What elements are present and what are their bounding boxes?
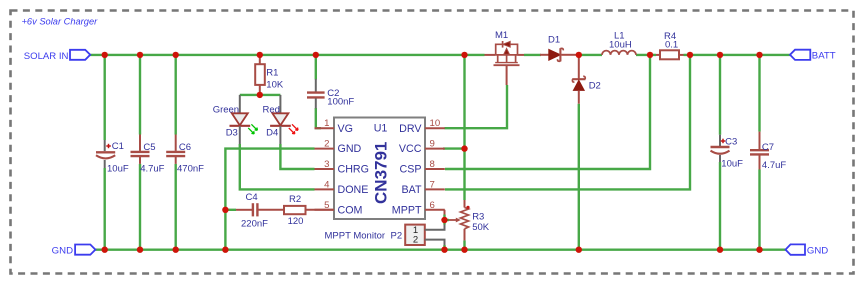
LED D3 green: [230, 95, 251, 144]
wire D1 cathode to L1: [576, 54, 602, 56]
junction dot R4/BAT node: [687, 52, 693, 58]
label C2 value: [327, 88, 354, 108]
svg-text:10uF: 10uF: [107, 163, 129, 174]
wire DRV pin10 to M1 gate: [445, 85, 508, 128]
junction dot rail/C5: [137, 52, 143, 58]
svg-text:BATT: BATT: [812, 51, 836, 62]
IC U1 right pin names: [392, 123, 423, 217]
svg-text:4.7uF: 4.7uF: [140, 163, 164, 174]
label L1 value: [609, 31, 632, 51]
junction dot gnd/P2 pin2: [441, 247, 447, 253]
svg-text:5: 5: [324, 200, 329, 211]
label M1: [495, 30, 508, 41]
svg-text:4.7uF: 4.7uF: [762, 160, 786, 171]
svg-text:C6: C6: [179, 142, 191, 153]
diode D2 schottky: [572, 56, 585, 104]
svg-text:M1: M1: [495, 30, 508, 41]
junction dot gnd/IC GND branch: [222, 247, 228, 253]
junction dot VCC: [461, 145, 467, 151]
LED D4 emission arrows (red): [289, 124, 298, 134]
svg-text:VG: VG: [338, 123, 353, 135]
wire C6 branch vertical: [174, 55, 176, 250]
svg-text:2: 2: [324, 139, 329, 150]
junction dot gnd/C7: [756, 247, 762, 253]
svg-text:C3: C3: [725, 137, 737, 148]
svg-text:0.1: 0.1: [665, 40, 678, 51]
svg-text:D1: D1: [548, 34, 560, 45]
capacitor C6: [166, 135, 185, 164]
junction dot R1/LEDs: [257, 92, 263, 98]
svg-text:Green: Green: [213, 104, 239, 115]
svg-text:VCC: VCC: [399, 143, 422, 155]
svg-text:CHRG: CHRG: [338, 164, 369, 176]
svg-text:D3: D3: [226, 128, 238, 139]
junction dot rail/C3: [717, 52, 723, 58]
svg-text:DRV: DRV: [399, 123, 422, 135]
label R1 value: [266, 68, 284, 91]
IC U1 CN3791 body: [334, 118, 425, 220]
wire SOLAR_IN top rail: [90, 54, 485, 56]
IC U1 MPPT pin bend to junction: [444, 210, 446, 215]
svg-text:MPPT: MPPT: [392, 204, 422, 216]
wire COM junction to C4: [225, 209, 236, 211]
wire LED top connector: [240, 94, 281, 96]
wire C5 branch vertical: [139, 55, 141, 250]
junction dot rail/C7: [756, 52, 762, 58]
svg-text:D2: D2: [589, 81, 601, 92]
inductor L1: [602, 51, 636, 55]
junction dot gnd/C6: [173, 247, 179, 253]
port GND left: [52, 245, 96, 257]
IC U1 left pin names: [338, 123, 369, 217]
svg-text:470nF: 470nF: [177, 163, 204, 174]
svg-text:CN3791: CN3791: [371, 142, 390, 204]
pin numbers left 1-5: [324, 118, 330, 211]
svg-text:C4: C4: [246, 192, 258, 203]
svg-text:10K: 10K: [266, 80, 284, 91]
wire M1 drain to D1: [524, 54, 541, 56]
svg-text:10: 10: [430, 118, 441, 129]
svg-text:P2: P2: [391, 230, 403, 241]
capacitor C4: [236, 203, 284, 216]
capacitor C2: [307, 79, 325, 108]
label C5 value: [140, 142, 164, 175]
svg-text:C7: C7: [762, 142, 774, 153]
label C6 value: [177, 142, 204, 175]
svg-text:10uH: 10uH: [609, 39, 632, 50]
svg-text:9: 9: [430, 139, 435, 150]
label C3 value: [721, 137, 743, 170]
svg-text:R1: R1: [266, 68, 278, 79]
wire CSP sense vertical x650 and horizontal to pin8: [445, 55, 650, 169]
wire GND bottom rail: [95, 248, 785, 250]
svg-text:10uF: 10uF: [721, 158, 743, 169]
wire BAT vertical x690 and horizontal to pin7: [445, 55, 690, 190]
svg-text:SOLAR IN: SOLAR IN: [24, 51, 69, 62]
junction dot COM/C4: [222, 207, 228, 213]
wire L1 to R4: [636, 54, 656, 56]
wire C3 branch vertical: [719, 55, 721, 250]
svg-text:+6v Solar Charger: +6v Solar Charger: [22, 17, 99, 27]
junction dot MPPT/P2: [441, 217, 447, 223]
wire C2 branch vertical and to pin1 VG: [316, 55, 321, 128]
junction dot rail/VCC branch: [461, 52, 467, 58]
LED D4 red: [270, 95, 291, 144]
mosfet M1: [485, 41, 525, 85]
resistor R2: [284, 206, 334, 214]
svg-text:120: 120: [288, 216, 304, 227]
capacitor C7: [750, 132, 769, 170]
label R3 value: [472, 212, 490, 234]
svg-text:7: 7: [430, 179, 435, 190]
junction dot gnd/R3: [461, 247, 467, 253]
port BATT: [790, 50, 836, 62]
resistor R1: [255, 55, 265, 95]
LED D3 emission arrows (green): [248, 124, 257, 134]
label D1: [548, 34, 560, 45]
junction dot gnd/D2: [576, 247, 582, 253]
junction dot L1/R4/CSP node: [647, 52, 653, 58]
wire CHRG pin3 to LED D4: [280, 144, 314, 169]
connector P2: [405, 225, 425, 246]
label C4 value: [241, 192, 268, 230]
wire MPPT junction to wiper: [445, 219, 450, 221]
diode D1 schottky: [540, 48, 576, 61]
svg-text:CSP: CSP: [400, 164, 422, 176]
pin numbers right 10-6: [430, 118, 441, 211]
svg-text:GND: GND: [338, 143, 362, 155]
wire C1 branch vertical: [103, 55, 105, 250]
label D4 and Red: [263, 104, 280, 138]
junction dot rail/C2: [313, 52, 319, 58]
IC U1 right pin stubs: [425, 128, 445, 210]
svg-text:C5: C5: [143, 142, 155, 153]
svg-text:GND: GND: [52, 246, 73, 257]
svg-text:U1: U1: [374, 123, 388, 135]
svg-text:R3: R3: [472, 212, 484, 223]
svg-text:GND: GND: [807, 246, 828, 257]
label MPPT Monitor P2: [325, 230, 403, 241]
wire D2 anode to ground: [578, 104, 580, 250]
connector P2 pin 2 stub: [425, 240, 445, 245]
svg-text:8: 8: [430, 159, 435, 170]
label D3 and Green: [213, 104, 239, 138]
svg-text:3: 3: [324, 159, 329, 170]
junction dot rail/R1: [257, 52, 263, 58]
resistor R4: [656, 50, 684, 59]
svg-text:6: 6: [430, 200, 435, 211]
svg-text:DONE: DONE: [338, 184, 369, 196]
capacitor C5: [131, 135, 150, 164]
IC U1 left pin stubs: [315, 128, 335, 210]
wire MPPT junction verticals: [443, 215, 445, 250]
port GND right: [786, 244, 829, 256]
svg-text:1: 1: [324, 118, 329, 129]
svg-text:220nF: 220nF: [241, 219, 268, 230]
label D2: [589, 81, 601, 92]
capacitor C1 polarized: [96, 140, 115, 168]
capacitor C3 polarized: [711, 135, 730, 162]
svg-text:2: 2: [413, 235, 418, 246]
label C1 value: [107, 141, 129, 174]
svg-text:100nF: 100nF: [327, 97, 354, 108]
port SOLAR IN: [24, 50, 90, 62]
svg-text:50K: 50K: [472, 222, 490, 233]
svg-text:BAT: BAT: [402, 184, 422, 196]
label R2 value: [288, 194, 304, 227]
label C7 value: [762, 142, 786, 171]
svg-text:D4: D4: [266, 128, 278, 139]
wire C7 branch vertical: [758, 55, 760, 250]
junction dot gnd/C5: [137, 247, 143, 253]
svg-text:C1: C1: [112, 141, 124, 152]
wire DONE pin4 to LED D3: [240, 144, 315, 189]
wire GND pin2 to ground: [225, 149, 314, 250]
svg-text:4: 4: [324, 179, 330, 190]
svg-text:Red: Red: [263, 104, 280, 115]
junction dot gnd/C3: [717, 247, 723, 253]
junction dot rail/C6: [173, 52, 179, 58]
wire R4 to BATT port: [684, 54, 791, 56]
svg-text:COM: COM: [338, 204, 363, 216]
wire VCC pin9 stub to vertical: [443, 147, 465, 149]
svg-text:R2: R2: [289, 194, 301, 205]
connector P2 pin 1 stub: [425, 225, 445, 230]
wire VCC vertical x464.5: [463, 55, 465, 250]
junction dot D1/D2 node: [576, 52, 582, 58]
potentiometer R3: [449, 200, 470, 240]
junction dot gnd/C1: [102, 247, 108, 253]
junction dot rail/C1: [102, 52, 108, 58]
svg-text:MPPT Monitor: MPPT Monitor: [325, 230, 386, 241]
label R4 value: [664, 31, 678, 51]
